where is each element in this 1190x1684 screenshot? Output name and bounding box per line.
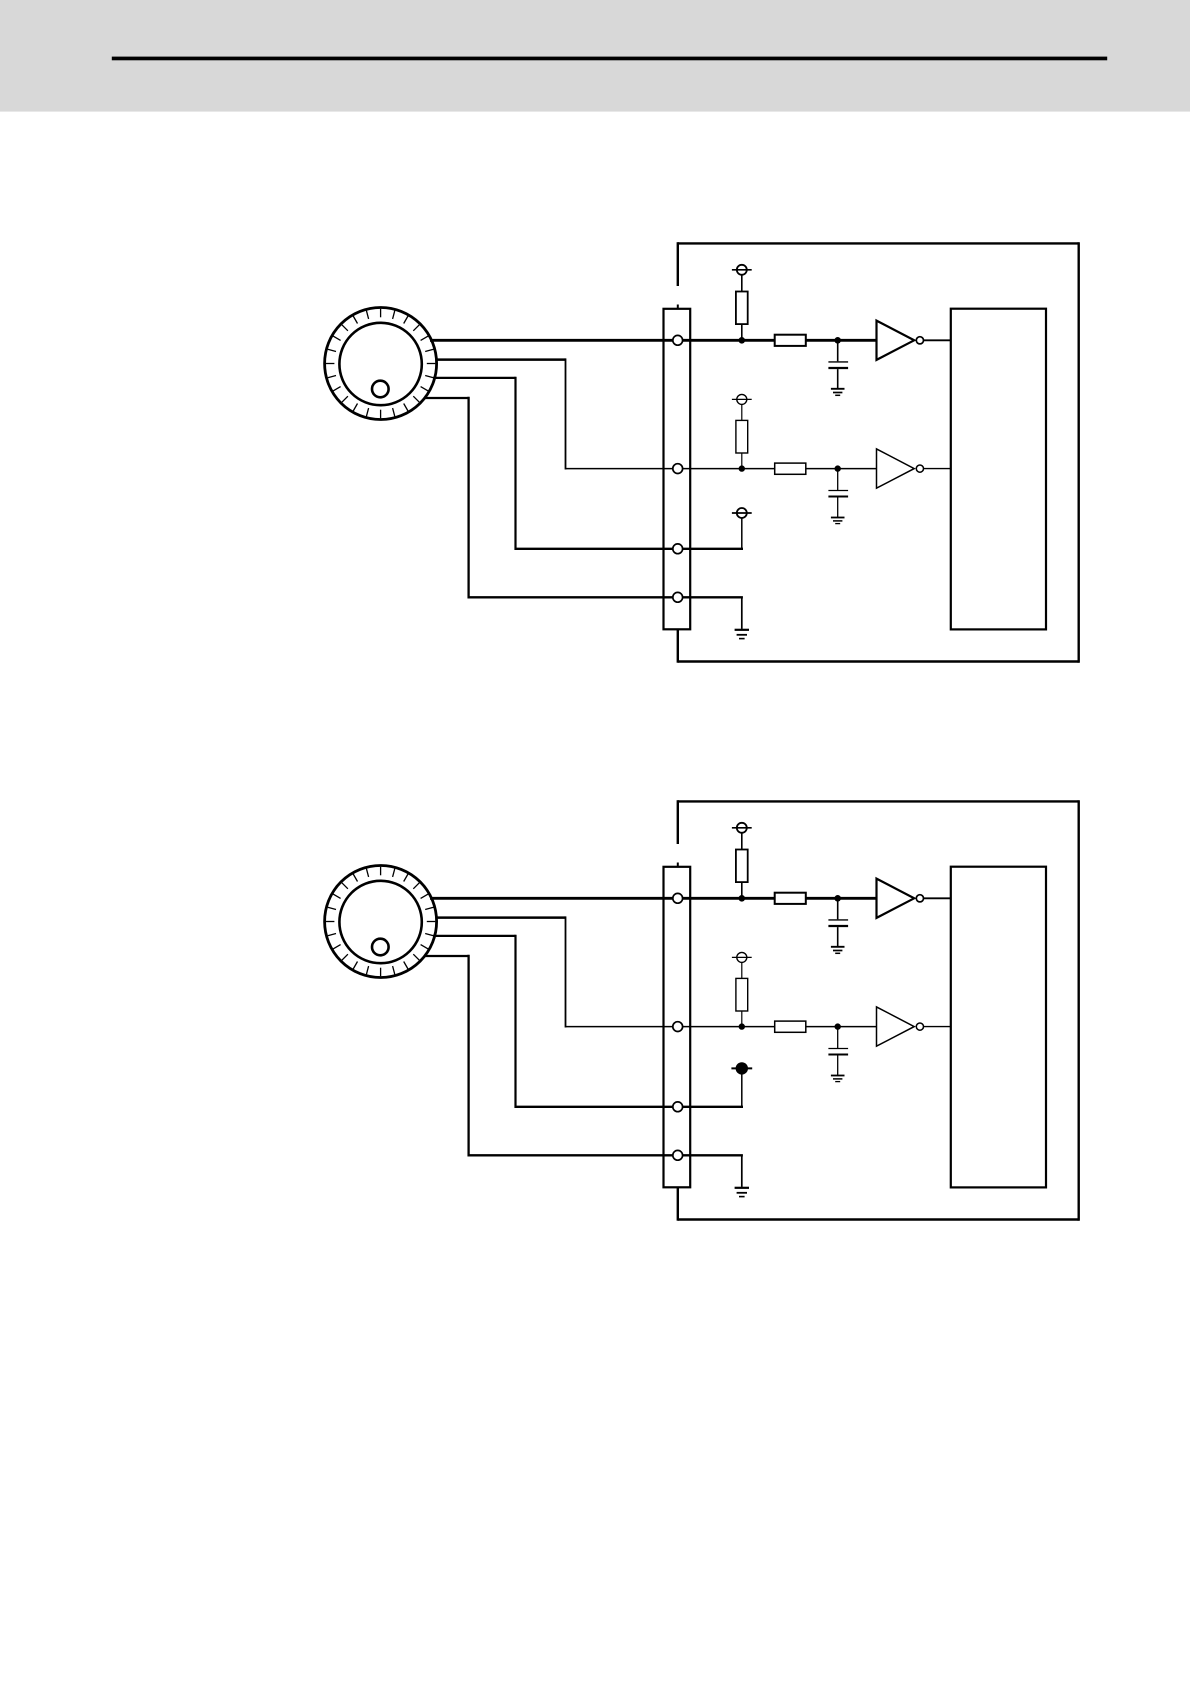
wire: G2 phase B vertical drop: [565, 916, 567, 1027]
outer box: positioning unit frame 2: [678, 800, 1079, 1220]
terminal strip TB1: top stub: [677, 305, 679, 309]
wire: G2 +5V lead vertical drop: [514, 935, 516, 1108]
capacitor: filter cap, phase A (diagram 2): [828, 898, 848, 946]
resistor: series filter, phase B (diagram 2): [775, 1021, 806, 1032]
resistor: series filter, phase A (diagram 2): [775, 893, 806, 904]
wire: terminal 4 to signal-ground (diagram 1): [683, 596, 743, 598]
resistor: pull-up, phase A (diagram 1): [736, 292, 748, 325]
wire: terminal 3 to +5V source node (diagram 1): [683, 548, 743, 550]
wire: terminal 3 to +5V source node (diagram 2): [683, 1106, 743, 1108]
wire: terminal 4 to signal-ground (diagram 2): [683, 1154, 743, 1156]
ground: filter cap ground, phase B (diagram 1): [831, 518, 845, 524]
wire: G1 +5V lead horizontal from encoder: [433, 377, 516, 379]
manual pulse generator G1: outer body circle: [325, 308, 437, 420]
wire: G1 0V lead into terminal 4: [469, 596, 673, 598]
resistor: pull-up, phase B (diagram 2): [736, 978, 748, 1011]
ground: filter cap ground, phase B (diagram 2): [831, 1076, 845, 1082]
junction: phase A / pull-up node (diagram 2): [739, 895, 746, 902]
inverter buffer: phase B input buffer (diagram 2): [877, 1007, 951, 1046]
wire: pull-up resistor to phase B node (diagram 2): [741, 1011, 743, 1027]
power symbol: +5V pull-up supply, phase A (diagram 1): [732, 265, 752, 292]
wire: G2 +5V lead into terminal 3: [516, 1106, 673, 1108]
power symbol: +5V pull-up supply, phase B (diagram 2): [732, 952, 752, 978]
manual pulse generator G1: dial tick marks: [326, 309, 436, 419]
wire: G1 phase B vertical drop: [565, 358, 567, 469]
resistor: series filter, phase B (diagram 1): [775, 463, 806, 474]
wire: G1 phase A signal to terminal 1, pull-up node, filter and buffer input: [430, 339, 877, 342]
power symbol: +5V pull-up supply, phase A (diagram 2): [732, 823, 752, 850]
inner box: receiver circuit block (diagram 2): [951, 867, 1046, 1188]
junction: phase A / pull-up node (diagram 1): [739, 337, 746, 344]
junction: phase A filter node (diagram 2): [834, 895, 841, 902]
power symbol: +5V pull-up supply, phase B (diagram 1): [732, 394, 752, 420]
terminal 1: phase A (TB1-1): [673, 335, 683, 345]
terminal 4: 0V (TB1-4): [673, 592, 683, 602]
ground: filter cap ground, phase A (diagram 2): [831, 947, 845, 954]
terminal 2: phase B (TB1-2): [673, 464, 683, 474]
capacitor: filter cap, phase B (diagram 2): [828, 1027, 848, 1075]
wire: G1 0V lead vertical drop: [467, 397, 469, 599]
ground: filter cap ground, phase A (diagram 1): [831, 389, 845, 396]
wire: G2 phase A signal to terminal 1, pull-up node, filter and buffer input: [430, 897, 877, 900]
manual pulse generator G1: inner dial circle: [339, 323, 421, 405]
wire: G2 phase B horizontal from encoder: [436, 916, 566, 919]
manual pulse generator G1: shaft circle: [372, 381, 389, 398]
resistor: pull-up, phase B (diagram 1): [736, 420, 748, 453]
header rule line: [112, 57, 1107, 61]
inverter buffer: phase B input buffer (diagram 1): [877, 449, 951, 488]
inverter buffer: phase A input buffer (diagram 2): [877, 879, 951, 918]
wire: G2 phase B into terminal 2 and on to filter/buffer input: [566, 1026, 877, 1028]
manual pulse generator G2: shaft circle: [372, 939, 389, 956]
capacitor: filter cap, phase B (diagram 1): [828, 469, 848, 517]
capacitor: filter cap, phase A (diagram 1): [828, 340, 848, 388]
power symbol: +5V supply for encoder, filled circle (diagram 2): [731, 1062, 752, 1074]
wire: +5V symbol down lead (diagram 2): [741, 1073, 743, 1106]
inverter buffer: phase A input buffer (diagram 1): [877, 321, 951, 360]
wire: G2 0V lead vertical drop: [467, 955, 469, 1157]
wire: G1 +5V lead into terminal 3: [516, 548, 673, 550]
terminal 1: phase A (TB2-1): [673, 893, 683, 903]
outer box: positioning unit frame 1: [678, 242, 1079, 663]
wire: pull-up resistor to phase A node (diagram 2): [741, 882, 743, 898]
manual pulse generator G2: outer body circle: [325, 866, 437, 978]
wire: G1 phase B into terminal 2 and on to filter/buffer input: [566, 468, 877, 470]
terminal strip TB2: top stub: [677, 863, 679, 867]
terminal 4: 0V (TB2-4): [673, 1150, 683, 1160]
terminal strip: connector block TB1: [664, 309, 691, 630]
wire: pull-up resistor to phase A node (diagram 1): [741, 324, 743, 340]
wire: G2 0V lead horizontal from encoder: [425, 955, 469, 957]
inner box: receiver circuit block (diagram 1): [951, 309, 1046, 630]
junction: phase B / pull-up node (diagram 1): [739, 465, 745, 471]
header band: [0, 0, 1190, 112]
power symbol: +5V supply for encoder, open circle (diagram 1): [732, 508, 752, 518]
wire: +5V symbol down lead (diagram 1): [741, 518, 743, 549]
junction: phase A filter node (diagram 1): [834, 337, 841, 344]
junction: phase B filter node (diagram 1): [835, 465, 841, 471]
junction: phase B filter node (diagram 2): [835, 1023, 841, 1029]
junction: phase B / pull-up node (diagram 2): [739, 1023, 745, 1029]
ground: signal ground for terminal 4 (diagram 2): [735, 1188, 749, 1197]
terminal 3: +5V (TB1-3): [673, 544, 683, 554]
manual pulse generator G2: inner dial circle: [339, 881, 421, 963]
resistor: pull-up, phase A (diagram 2): [736, 850, 748, 883]
resistor: series filter, phase A (diagram 1): [775, 335, 806, 346]
terminal strip: connector block TB2: [664, 867, 691, 1188]
terminal 2: phase B (TB2-2): [673, 1022, 683, 1032]
wire: G1 0V lead horizontal from encoder: [425, 397, 469, 399]
wire: G2 0V lead into terminal 4: [469, 1154, 673, 1156]
wire: G1 phase B horizontal from encoder: [436, 358, 566, 361]
wire: pull-up resistor to phase B node (diagram 1): [741, 453, 743, 469]
wire: G1 +5V lead vertical drop: [514, 377, 516, 550]
manual pulse generator G2: dial tick marks: [326, 867, 436, 977]
wire: G2 +5V lead horizontal from encoder: [433, 935, 516, 937]
terminal 3: +5V (TB2-3): [673, 1102, 683, 1112]
ground: signal ground for terminal 4 (diagram 1): [735, 630, 749, 639]
